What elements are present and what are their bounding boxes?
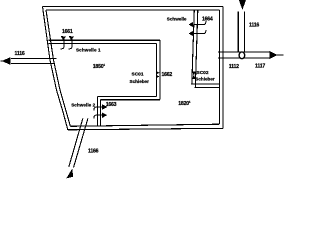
svg-text:Schieber: Schieber xyxy=(195,76,215,81)
flow arrow 1 over Schwelle 1 xyxy=(60,36,66,49)
svg-text:1112: 1112 xyxy=(229,64,239,70)
basin outer wall left (slanted) xyxy=(43,7,71,130)
gate valve SC02 (hourglass) xyxy=(192,71,196,79)
flow arrow 2 over Schwelle 1 xyxy=(68,36,74,49)
svg-text:1820¹: 1820¹ xyxy=(178,101,191,107)
Schwelle 1 sill (double line) xyxy=(49,40,160,43)
svg-text:1663: 1663 xyxy=(106,102,117,108)
up channel (vertical double line) xyxy=(238,12,244,53)
basin outer wall top xyxy=(43,7,223,11)
flow arrow 2 over Schwelle 2 xyxy=(94,112,108,118)
svg-text:Schwelle 1: Schwelle 1 xyxy=(76,48,101,53)
flow arrow 2 over top Schwelle xyxy=(188,30,206,36)
arrow outflow bottom xyxy=(66,169,73,179)
svg-text:1661: 1661 xyxy=(62,29,73,35)
basin outer wall right xyxy=(219,7,223,129)
SC01 wall (vertical double line) xyxy=(156,40,159,99)
chamber bottom wall (double line) xyxy=(97,97,159,100)
svg-text:SC01: SC01 xyxy=(132,72,144,78)
gate valve SC01 (hourglass) xyxy=(156,71,160,78)
flow arrow 1 over top Schwelle xyxy=(188,21,206,27)
svg-text:1850¹: 1850¹ xyxy=(93,64,106,70)
Schwelle 2 sill (vertical double line) xyxy=(97,97,100,126)
outflow channel 1166 (bottom, slanted double line) xyxy=(69,119,88,168)
svg-text:1117: 1117 xyxy=(255,63,265,69)
svg-text:1166: 1166 xyxy=(88,148,99,154)
svg-text:1664: 1664 xyxy=(202,16,213,22)
inflow channel 1116 (left) xyxy=(11,59,57,64)
arrow up channel (clipped at top) xyxy=(239,0,246,10)
svg-text:1116: 1116 xyxy=(15,51,25,57)
svg-text:1116: 1116 xyxy=(249,23,259,29)
node circle 1112 xyxy=(239,52,245,59)
svg-text:Schwelle: Schwelle xyxy=(167,16,187,21)
flow arrow 1 over Schwelle 2 xyxy=(94,104,108,111)
svg-text:Schwelle 2: Schwelle 2 xyxy=(71,102,95,107)
svg-text:1662: 1662 xyxy=(162,72,173,78)
arrow outflow right xyxy=(277,54,284,56)
svg-text:SC02: SC02 xyxy=(197,70,209,76)
Schwelle top / SC02 wall (L-shaped double line) xyxy=(192,10,220,88)
basin outer wall bottom xyxy=(68,124,223,130)
arrow outflow left xyxy=(1,60,5,62)
exit channel right (double line) xyxy=(218,52,270,58)
svg-text:Schieber: Schieber xyxy=(130,79,150,84)
